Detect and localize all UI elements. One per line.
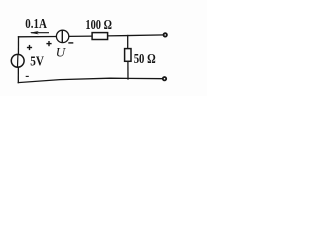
resistor 50ohm (vertical box) — [125, 49, 131, 62]
svg-text:100 Ω: 100 Ω — [85, 18, 112, 33]
current source circle (voltage U across it) — [56, 30, 68, 43]
wire 50ohm branch upper — [127, 36, 129, 49]
terminal top-right — [164, 33, 167, 36]
svg-text:5V: 5V — [30, 55, 44, 70]
polarity minus (right of U circle) — [68, 42, 73, 44]
wire bottom horizontal — [18, 78, 164, 82]
svg-text:U: U — [56, 45, 67, 60]
polarity minus (5V source, bottom) — [26, 75, 29, 77]
svg-text:50 Ω: 50 Ω — [134, 52, 156, 67]
wire top-middle segment (circle to 100ohm resistor) — [69, 35, 93, 37]
resistor 100ohm (horizontal box) — [92, 33, 108, 40]
wire 50ohm branch lower — [127, 61, 129, 79]
voltage source 5V circle — [11, 54, 24, 67]
polarity plus (5V source, top) — [27, 45, 32, 50]
terminal bottom-right — [163, 77, 166, 80]
svg-text:0.1A: 0.1A — [25, 17, 47, 32]
current direction arrow (0.1A, pointing left) — [30, 31, 49, 34]
polarity plus (left of U circle) — [46, 41, 51, 46]
wire top-right segment (resistor to terminal, junction at 50ohm branch) — [108, 35, 166, 36]
wire left branch vertical (through 5V source) — [17, 37, 19, 83]
wire top-left horizontal segment — [19, 36, 57, 38]
